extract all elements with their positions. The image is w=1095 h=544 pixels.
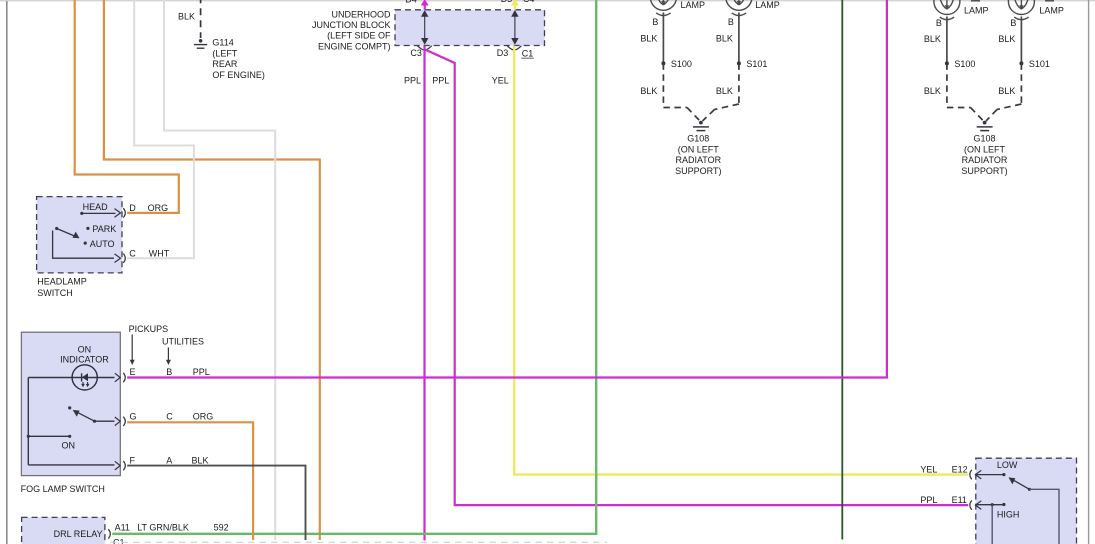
splice S101 (left): [737, 59, 768, 69]
wire WHT from headlamp switch pin C up to top (vertical x=134.2): [127, 0, 194, 258]
svg-text:BLK: BLK: [640, 34, 657, 44]
connector cup at C1: [507, 46, 521, 50]
svg-text:BLK: BLK: [716, 34, 733, 44]
top window edge strip: [0, 0, 1095, 1]
svg-text:BLK: BLK: [998, 86, 1015, 96]
svg-text:SWITCH: SWITCH: [37, 288, 73, 298]
label G108 (ON LEFT RADIATOR SUPPORT) left: [675, 134, 722, 176]
svg-text:E11: E11: [952, 495, 967, 505]
wire WHT second from top, turns right at y=130.5, down at x=275.2 to bottom: [164, 0, 275, 540]
fog lamp switch SW2 box: [21, 332, 120, 475]
ground G114: [194, 39, 207, 48]
svg-text:BLK: BLK: [924, 86, 941, 96]
svg-text:LT GRN/BLK: LT GRN/BLK: [137, 522, 189, 532]
ground G108 (right): [977, 121, 993, 131]
label PPL E11: [920, 495, 967, 505]
fog switch ON contact stub: [27, 435, 75, 451]
svg-text:PPL: PPL: [193, 367, 210, 377]
svg-text:B: B: [728, 17, 734, 27]
faint dashed box top edge at bottom cut: [110, 541, 607, 543]
pass-through arrow (D3-C4) inside junction block: [512, 11, 518, 43]
wire PPL from C3 jog right then down to dimmer switch E11: [425, 50, 968, 506]
svg-text:PARK: PARK: [92, 224, 116, 234]
pin A11 of DRL relay: [108, 522, 228, 538]
label UTILITIES with arrow: [162, 336, 204, 365]
svg-text:AUTO: AUTO: [90, 239, 115, 249]
pin E of fog lamp switch: [115, 367, 210, 382]
svg-text:WHT: WHT: [149, 249, 170, 259]
wire PPL stub above junction block pin D4 (cut at top): [421, 0, 429, 10]
svg-text:C1: C1: [113, 538, 125, 544]
svg-text:C: C: [166, 412, 173, 422]
wire BLK from fog lamp switch F right then down to bottom: [127, 466, 305, 540]
headlamp dimmer switch SW3 box (cut at bottom right): [976, 458, 1077, 544]
lamp DRL right A: [934, 0, 960, 20]
svg-text:D3: D3: [501, 0, 513, 4]
pin G of fog lamp switch: [115, 412, 213, 426]
headlamp switch wiper arm: [55, 227, 79, 238]
wire BLK lamp B to S101: [738, 13, 740, 64]
label G108 (ON LEFT RADIATOR SUPPORT) right: [961, 134, 1008, 176]
svg-text:ENGINE COMPT): ENGINE COMPT): [318, 41, 391, 51]
contact PARK: [86, 224, 116, 234]
svg-text:B: B: [1010, 18, 1016, 28]
svg-text:OF ENGINE): OF ENGINE): [212, 70, 265, 80]
svg-text:G114: G114: [212, 38, 233, 48]
svg-text:SUPPORT): SUPPORT): [675, 166, 721, 176]
svg-text:(ON LEFT: (ON LEFT: [678, 144, 720, 154]
wire BLK lamp A to S100: [662, 13, 664, 64]
svg-text:S101: S101: [1029, 59, 1050, 69]
svg-text:ORG: ORG: [148, 203, 169, 213]
svg-text:F: F: [130, 455, 136, 465]
svg-text:BLK: BLK: [640, 86, 657, 96]
svg-text:RADIATOR: RADIATOR: [675, 155, 721, 165]
svg-text:FOG LAMP SWITCH: FOG LAMP SWITCH: [21, 484, 105, 494]
svg-text:C3: C3: [410, 48, 422, 58]
label HEADLAMP SWITCH: [37, 276, 87, 298]
wire BLK dashed S100 to G108 (left): [663, 63, 699, 120]
svg-text:LAMP: LAMP: [755, 0, 780, 10]
svg-text:DRL RELAY: DRL RELAY: [54, 529, 103, 539]
left frame border: [6, 1, 8, 544]
svg-text:BLK: BLK: [192, 455, 209, 465]
svg-text:E12: E12: [952, 464, 968, 474]
svg-text:A11: A11: [115, 522, 130, 532]
svg-text:E: E: [130, 367, 136, 377]
svg-text:C1: C1: [522, 48, 534, 58]
svg-text:HEAD: HEAD: [83, 202, 109, 212]
svg-text:HEADLAMP: HEADLAMP: [37, 276, 87, 286]
label HEAD with contact: [80, 202, 115, 215]
pin E12 of dimmer switch: [970, 470, 1006, 479]
svg-text:INDICATOR: INDICATOR: [60, 354, 109, 364]
ground G108 (left): [693, 121, 709, 131]
svg-text:BLK: BLK: [716, 86, 733, 96]
lamp DRL right B: [1008, 0, 1034, 20]
svg-text:C4: C4: [523, 0, 535, 4]
wire BLK dashed to ground G114: [200, 0, 202, 38]
pin F of fog lamp switch: [115, 455, 209, 470]
svg-text:LAMP: LAMP: [681, 0, 706, 10]
lamp DRL left A: [650, 0, 676, 16]
label fragment above right lamp B (cut): [1045, 0, 1054, 2]
headlamp switch common line to pin C: [53, 231, 114, 259]
svg-text:PPL: PPL: [404, 76, 421, 86]
wire BLK dashed S101 to G108 (left): [703, 63, 739, 121]
svg-text:UNDERHOOD: UNDERHOOD: [331, 10, 391, 20]
svg-text:G: G: [130, 412, 137, 422]
label G114 (LEFT REAR OF ENGINE): [212, 38, 265, 80]
svg-text:HIGH: HIGH: [997, 510, 1020, 520]
wire ORG from fog lamp switch G right then down to bottom: [127, 422, 253, 540]
pin C of headlamp switch: [115, 249, 170, 263]
svg-text:PICKUPS: PICKUPS: [129, 324, 169, 334]
svg-text:LAMP: LAMP: [1039, 6, 1064, 16]
LED indicator D1: [72, 365, 97, 390]
svg-text:JUNCTION BLOCK: JUNCTION BLOCK: [312, 20, 391, 30]
DRL relay K1 box (cut at bottom): [22, 517, 105, 544]
wire BLK right lamp B to S101: [1020, 17, 1022, 64]
svg-text:D: D: [129, 203, 136, 213]
wire YEL from C1 down then right to dimmer switch E12: [514, 46, 968, 475]
junction block U1 box: [395, 10, 545, 46]
headlamp switch SW1 box: [37, 197, 122, 273]
wire DK GRN vertical right side (cut top and bottom): [841, 0, 843, 540]
fog switch internal wire E row: [28, 377, 114, 379]
svg-text:D4: D4: [405, 0, 417, 5]
svg-text:(LEFT: (LEFT: [212, 48, 238, 58]
wire BLK dashed S100 to G108 (right): [947, 63, 983, 120]
svg-text:C: C: [129, 249, 136, 259]
wire PPL from fog lamp switch E right then up to top: [127, 0, 887, 378]
wire PPL from C3 straight down to bottom (cut): [423, 46, 425, 541]
svg-text:PPL: PPL: [920, 495, 937, 505]
wire YEL stub above junction block pin C4 (cut at top): [511, 0, 519, 10]
svg-text:S100: S100: [954, 59, 975, 69]
label UNDERHOOD JUNCTION BLOCK (LEFT SIDE OF ENGINE COMPT): [312, 10, 391, 52]
svg-text:G108: G108: [687, 134, 709, 144]
svg-text:A: A: [166, 455, 172, 465]
svg-text:BLK: BLK: [998, 34, 1015, 44]
wire ORG second feed from top, turns right at y=159.5, down at x=319.8 to bottom: [104, 0, 320, 540]
svg-text:YEL: YEL: [920, 464, 937, 474]
svg-text:PPL: PPL: [432, 76, 449, 86]
pin C1 label (connector, underlined gray): [521, 48, 534, 58]
wire LT GRN from DRL relay A11 right then up to top: [112, 0, 596, 534]
svg-text:S101: S101: [746, 59, 767, 69]
svg-text:ON: ON: [78, 345, 92, 355]
label ON INDICATOR: [60, 345, 109, 365]
svg-text:B: B: [936, 18, 942, 28]
label PICKUPS with arrow: [129, 324, 169, 365]
svg-text:BLK: BLK: [178, 12, 195, 22]
splice S100 (left): [661, 59, 692, 69]
wire BLK right lamp A to S100: [946, 17, 948, 64]
svg-text:592: 592: [214, 522, 229, 532]
right frame border: [1088, 0, 1090, 544]
label YEL E12: [920, 464, 967, 474]
svg-text:D3: D3: [497, 48, 509, 58]
svg-text:B: B: [652, 17, 658, 27]
svg-text:UTILITIES: UTILITIES: [162, 336, 204, 346]
svg-text:YEL: YEL: [492, 76, 509, 86]
label fragment above right lamp A (cut): [971, 0, 980, 2]
svg-text:BLK: BLK: [924, 34, 941, 44]
splice S100 (right): [945, 59, 976, 69]
pin E11 of dimmer switch: [970, 500, 1006, 544]
fog switch wiper arm (G row): [68, 406, 114, 423]
pass-through arrow (C3-D4) inside junction block: [422, 11, 428, 43]
svg-text:(ON LEFT: (ON LEFT: [964, 144, 1006, 154]
svg-text:SUPPORT): SUPPORT): [961, 166, 1007, 176]
svg-text:B: B: [166, 367, 172, 377]
dimmer switch wiper arm: [1009, 477, 1060, 544]
contact AUTO: [84, 239, 115, 249]
connector cup at C3: [418, 46, 432, 50]
splice S101 (right): [1019, 59, 1050, 69]
wire ORG from headlamp switch pin D up to top (vertical x=74.7): [75, 0, 179, 213]
svg-text:LOW: LOW: [997, 460, 1018, 470]
wire BLK dashed S101 to G108 (right): [986, 63, 1021, 121]
svg-text:ORG: ORG: [193, 412, 214, 422]
pin D of headlamp switch: [115, 203, 169, 217]
lamp DRL left B: [726, 0, 752, 16]
svg-text:G108: G108: [973, 134, 995, 144]
svg-text:ON: ON: [62, 440, 76, 450]
svg-text:(LEFT SIDE OF: (LEFT SIDE OF: [327, 31, 391, 41]
svg-text:S100: S100: [671, 59, 692, 69]
fog switch bottom line to pin F: [28, 464, 114, 466]
fog switch left common vertical: [27, 378, 29, 465]
svg-text:RADIATOR: RADIATOR: [962, 155, 1008, 165]
svg-text:LAMP: LAMP: [964, 6, 989, 16]
svg-text:REAR: REAR: [212, 59, 238, 69]
